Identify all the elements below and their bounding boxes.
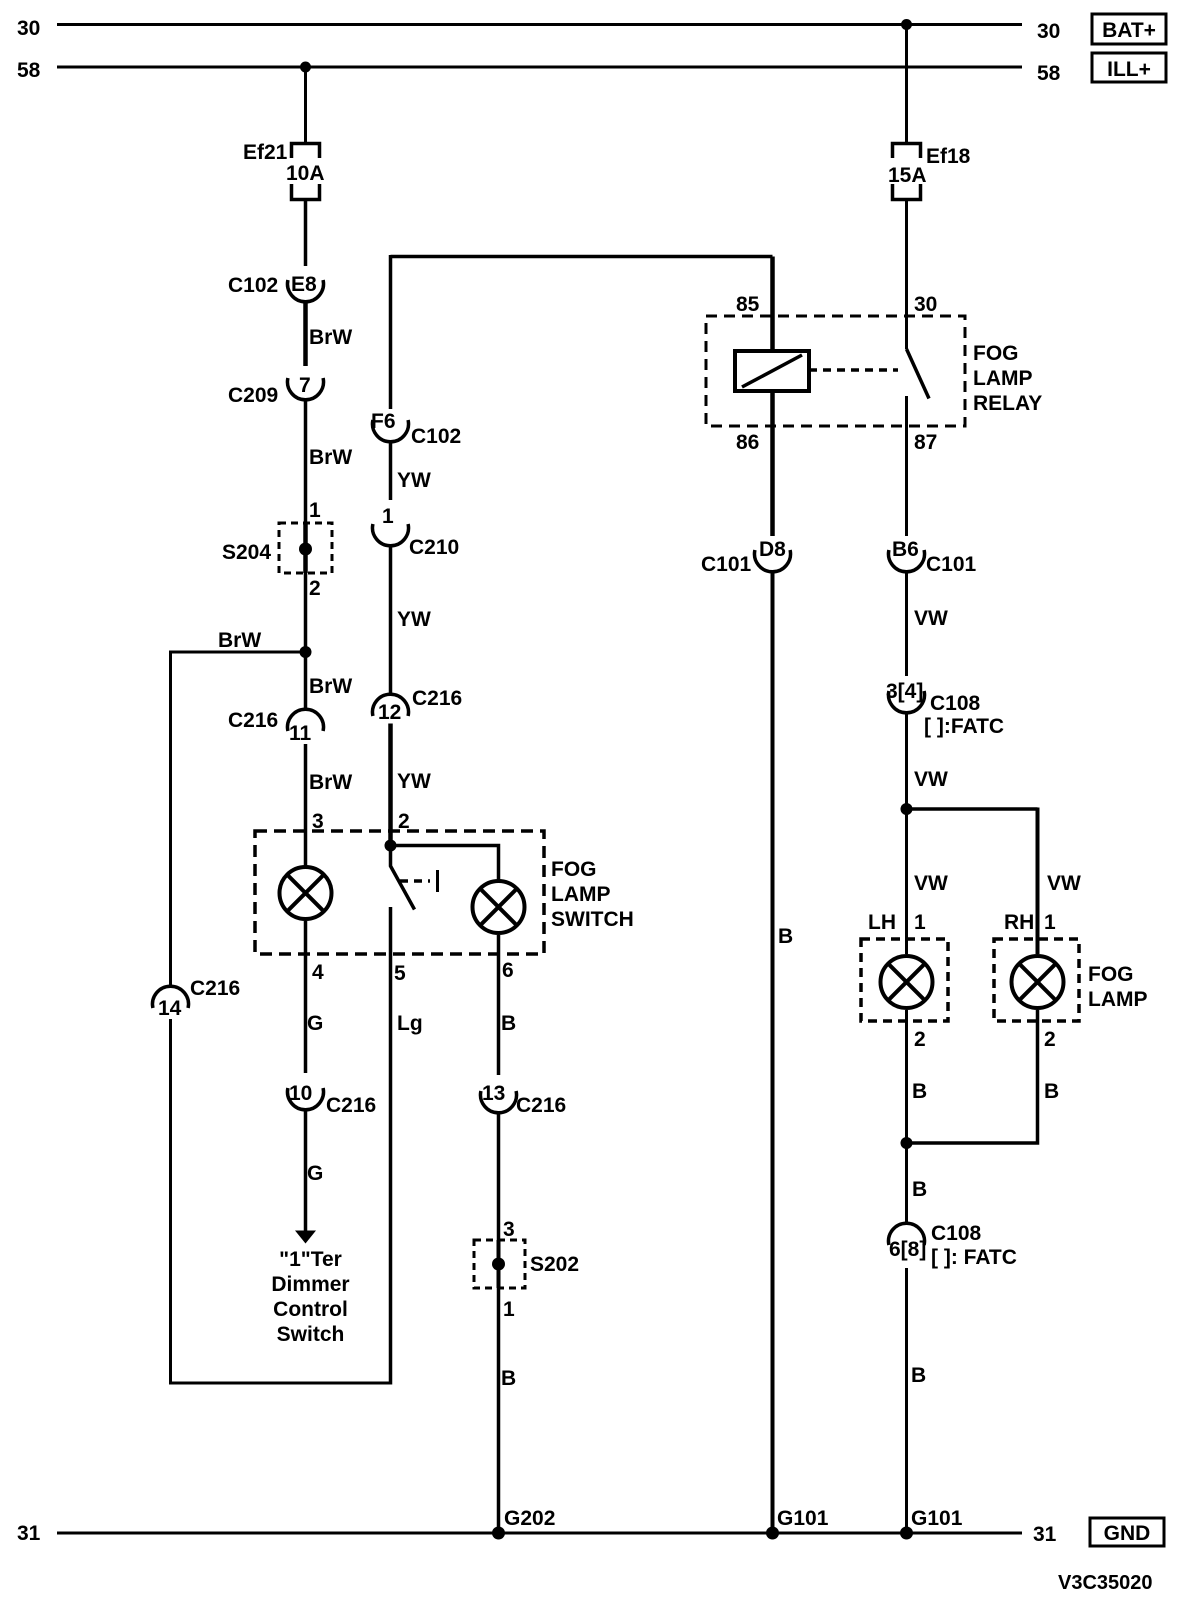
svg-text:30: 30 [17, 17, 40, 40]
C102 pin F6 label [371, 410, 396, 433]
BAT+ terminal [1092, 14, 1166, 44]
wire B S202 to ground G202 [497, 1288, 501, 1533]
svg-text:2: 2 [914, 1028, 926, 1051]
junction VW lamp branch [901, 803, 913, 815]
svg-text:B: B [912, 1178, 927, 1201]
svg-text:BrW: BrW [309, 675, 352, 698]
svg-text:RH: RH [1004, 911, 1034, 934]
wire color B label D8 [778, 925, 793, 948]
ground G101 second [900, 1527, 913, 1540]
relay pin 30 label [914, 293, 937, 316]
wire C216-14 down to loop bottom [169, 1019, 172, 1385]
svg-text:C101: C101 [701, 553, 752, 576]
svg-text:G: G [307, 1162, 323, 1185]
wire color BrW label at branch [218, 629, 261, 652]
C108 FATC note [924, 715, 1004, 738]
wire color B label 2 [501, 1367, 516, 1390]
wire YW C216-12 to switch pin 2 [388, 724, 393, 846]
wire color B label RH [1044, 1080, 1059, 1103]
svg-text:15A: 15A [888, 164, 927, 187]
wire BrW C209 to splice S204 [304, 400, 308, 525]
C209 pin 7 label [299, 374, 311, 397]
svg-text:B: B [911, 1364, 926, 1387]
connector C108 pin 6[8] [889, 1223, 925, 1245]
svg-text:12: 12 [378, 701, 401, 724]
connector C216 pin 12 [372, 694, 408, 716]
svg-text:Control: Control [273, 1298, 348, 1321]
wire down to connector C102 F6 [389, 255, 393, 409]
wire color YW label 3 [397, 770, 431, 793]
C108-68 name label [931, 1222, 982, 1245]
wire BrW E8 to C209 [303, 302, 308, 366]
arrow to dimmer control switch [295, 1231, 316, 1244]
wire G switch pin 4 to C216 pin 10 [304, 921, 308, 1073]
C216 pin 10 label [289, 1082, 312, 1105]
ground G202 label [504, 1507, 555, 1530]
C216-12 name label [412, 687, 462, 710]
dimmer control switch destination label [271, 1248, 349, 1346]
FOG LAMP SWITCH title [551, 858, 634, 931]
C102 pin E8 label [291, 273, 317, 296]
svg-text:1: 1 [914, 911, 926, 934]
C108 name label [930, 692, 981, 715]
RH lamp pin 2 label [1044, 1028, 1056, 1051]
fuse Ef21 value 10A [286, 162, 325, 185]
wire VW B6 to C108 [905, 572, 908, 676]
wire color YW label 1 [397, 469, 431, 492]
wire color YW label 2 [397, 608, 431, 631]
ground G101 first label [777, 1507, 829, 1530]
svg-text:E8: E8 [291, 273, 317, 296]
svg-text:C216: C216 [516, 1094, 566, 1117]
C101-B6 name label [926, 553, 977, 576]
wire color G label 2 [307, 1162, 323, 1185]
svg-text:C216: C216 [326, 1094, 376, 1117]
svg-text:14: 14 [158, 997, 182, 1020]
connector C210 pin 1 [373, 524, 409, 546]
wire VW junction to LH fog lamp [905, 809, 908, 954]
wire color VW label 1 [914, 607, 948, 630]
wire color B label LH [912, 1080, 927, 1103]
net 58 label right [1037, 62, 1061, 85]
svg-text:2: 2 [1044, 1028, 1056, 1051]
FOG LAMP title [1088, 963, 1148, 1011]
switch pin 4 label [312, 961, 324, 984]
switch contact blade [391, 846, 415, 910]
svg-text:10: 10 [289, 1082, 312, 1105]
svg-text:C108: C108 [930, 692, 981, 715]
svg-text:LAMP: LAMP [1088, 988, 1148, 1011]
svg-text:FOG: FOG [551, 858, 597, 881]
switch pin 2 label [398, 810, 410, 833]
net 58 label left [17, 59, 41, 82]
svg-text:D8: D8 [759, 538, 786, 561]
connector C216 pin 13 [480, 1091, 516, 1113]
junction BrW branch node [300, 646, 312, 658]
C101-D8 name label [701, 553, 752, 576]
relay contact blade [907, 349, 930, 399]
svg-text:C216: C216 [228, 709, 278, 732]
wire BrW S204 to junction [304, 573, 308, 652]
RH lamp pin 1 label [1044, 911, 1056, 934]
C102-F6 name label [411, 425, 461, 448]
S202 pin 1 label [503, 1298, 515, 1321]
svg-text:C102: C102 [411, 425, 461, 448]
svg-text:LH: LH [868, 911, 896, 934]
svg-text:6[8]: 6[8] [889, 1238, 926, 1261]
switch illumination lamp [280, 867, 332, 919]
switch pin 3 label [312, 810, 324, 833]
svg-text:Dimmer: Dimmer [271, 1273, 349, 1296]
RH fog lamp [1012, 956, 1064, 1008]
svg-text:G: G [307, 1012, 323, 1035]
wire relay feed to coil pin 85 [770, 257, 775, 352]
wire relay pin 87 to C101 B6 [905, 426, 908, 536]
wire B C108 to ground G101 [905, 1268, 908, 1533]
svg-text:10A: 10A [286, 162, 325, 185]
wire color VW label RH [1047, 872, 1081, 895]
svg-text:C216: C216 [190, 977, 240, 1000]
wire BrW C216-11 to switch pin 3 [304, 744, 308, 866]
splice S204 [279, 523, 332, 573]
svg-text:FOG: FOG [1088, 963, 1134, 986]
C101 pin D8 label [759, 538, 786, 561]
svg-text:2: 2 [309, 577, 321, 600]
fog lamp switch box [255, 831, 544, 954]
svg-text:C108: C108 [931, 1222, 982, 1245]
svg-text:30: 30 [1037, 20, 1060, 43]
fuse Ef18 name label [926, 145, 971, 168]
svg-text:11: 11 [289, 722, 312, 745]
C108-68 FATC note [931, 1246, 1017, 1269]
svg-text:B: B [501, 1367, 516, 1390]
S204 pin 2 label [309, 577, 321, 600]
fuse Ef21 [292, 144, 320, 200]
svg-text:C210: C210 [409, 536, 459, 559]
wire color BrW label 2 [309, 446, 352, 469]
wire net 58 bus [57, 66, 1022, 69]
net 31 label right [1033, 1523, 1057, 1546]
wire VW C108 to lamp branch junction [905, 713, 908, 809]
C216 pin 14 label [158, 997, 182, 1020]
svg-text:58: 58 [17, 59, 41, 82]
svg-text:VW: VW [1047, 872, 1081, 895]
wire switch node to indicator lamp [391, 846, 499, 881]
switch pin 6 label [502, 959, 514, 982]
svg-text:B6: B6 [892, 538, 919, 561]
svg-text:YW: YW [397, 770, 431, 793]
wire color BrW label 3 [309, 675, 352, 698]
wire net 58 to fuse Ef21 [304, 67, 307, 142]
svg-text:31: 31 [17, 1522, 41, 1545]
junction B lamps [901, 1137, 913, 1149]
C216 pin 12 label [378, 701, 401, 724]
wire BrW junction to left branch [171, 651, 306, 654]
wire color VW label LH [914, 872, 948, 895]
wire left branch down to C216 pin 14 [169, 651, 172, 987]
svg-text:V3C35020: V3C35020 [1058, 1572, 1153, 1594]
svg-text:ILL+: ILL+ [1107, 58, 1151, 81]
svg-text:58: 58 [1037, 62, 1061, 85]
svg-text:7: 7 [299, 374, 311, 397]
wire BrW junction to C216 pin 11 [304, 652, 308, 710]
FOG LAMP RELAY title [973, 342, 1042, 415]
S202 name label [530, 1253, 579, 1276]
svg-text:[ ]: FATC: [ ]: FATC [931, 1246, 1017, 1269]
wire VW branch to RH lamp column [907, 807, 1038, 811]
svg-text:YW: YW [397, 608, 431, 631]
svg-text:S204: S204 [222, 541, 271, 564]
svg-text:Lg: Lg [397, 1012, 423, 1035]
svg-text:B: B [501, 1012, 516, 1035]
svg-text:BAT+: BAT+ [1102, 19, 1156, 42]
ground G202 [492, 1527, 505, 1540]
svg-text:YW: YW [397, 469, 431, 492]
LH fog lamp box [861, 939, 948, 1021]
LH lamp pin 2 label [914, 1028, 926, 1051]
fog lamp relay box [706, 316, 965, 426]
svg-text:Switch: Switch [277, 1323, 345, 1346]
wire color BrW label 4 [309, 771, 352, 794]
wire relay pin 86 to C101 D8 [770, 391, 775, 536]
C209 name label [228, 384, 278, 407]
svg-text:BrW: BrW [309, 771, 352, 794]
svg-text:VW: VW [914, 872, 948, 895]
relay coil [735, 351, 809, 391]
svg-text:C216: C216 [412, 687, 462, 710]
switch node pin 2 [385, 840, 397, 852]
svg-text:Ef18: Ef18 [926, 145, 971, 168]
svg-text:G202: G202 [504, 1507, 555, 1530]
C210 pin 1 label [382, 505, 394, 528]
svg-text:87: 87 [914, 431, 937, 454]
relay pin 86 label [736, 431, 759, 454]
wire color B label 4 [911, 1364, 926, 1387]
ILL+ terminal [1092, 53, 1166, 82]
wire color VW label 2 [914, 768, 948, 791]
net 30 label left [17, 17, 40, 40]
svg-text:"1"Ter: "1"Ter [279, 1248, 342, 1271]
wire color B label 1 [501, 1012, 516, 1035]
svg-text:LAMP: LAMP [973, 367, 1033, 390]
svg-text:BrW: BrW [218, 629, 261, 652]
svg-text:[ ]:FATC: [ ]:FATC [924, 715, 1004, 738]
LH lamp pin 1 label [914, 911, 926, 934]
ground G101 first [766, 1527, 779, 1540]
connector C216 pin 14 [153, 986, 189, 1008]
C108 pin 6[8] label [889, 1238, 926, 1261]
connector C101 pin D8 [755, 550, 791, 572]
svg-text:VW: VW [914, 607, 948, 630]
diagram number V3C35020 [1058, 1572, 1153, 1594]
S202 pin 3 label [503, 1218, 515, 1241]
wire net 31 ground bus [57, 1532, 1022, 1535]
svg-text:SWITCH: SWITCH [551, 908, 634, 931]
wire net 30 to fuse Ef18 [905, 25, 908, 143]
svg-text:C101: C101 [926, 553, 977, 576]
connector C216 pin 11 [288, 709, 324, 731]
C216-14 name label [190, 977, 240, 1000]
GND terminal [1090, 1518, 1164, 1546]
connector C102 pin E8 [288, 280, 324, 302]
svg-text:B: B [1044, 1080, 1059, 1103]
wire net 30 bus [57, 23, 1022, 26]
svg-text:1: 1 [503, 1298, 515, 1321]
junction on net 30 [901, 19, 912, 30]
C216-13 name label [516, 1094, 566, 1117]
svg-text:VW: VW [914, 768, 948, 791]
svg-text:1: 1 [1044, 911, 1056, 934]
wire B switch pin 6 to C216 pin 13 [497, 935, 501, 1075]
relay pin 87 label [914, 431, 937, 454]
C101 pin B6 label [892, 538, 919, 561]
svg-text:S202: S202 [530, 1253, 579, 1276]
wire YW F6 to C210 [389, 442, 393, 500]
wire B RH lamp to junction [907, 1010, 1038, 1143]
svg-text:3: 3 [503, 1218, 515, 1241]
C102 name label [228, 274, 278, 297]
C216 pin 11 label [289, 722, 312, 745]
RH fog lamp box [994, 939, 1079, 1021]
svg-text:85: 85 [736, 293, 760, 316]
svg-text:1: 1 [309, 499, 321, 522]
svg-text:BrW: BrW [309, 326, 352, 349]
net 31 label left [17, 1522, 41, 1545]
fuse Ef18 value 15A [888, 164, 927, 187]
svg-text:BrW: BrW [309, 446, 352, 469]
wire color G label 1 [307, 1012, 323, 1035]
LH lamp designator [868, 911, 896, 934]
svg-text:Ef21: Ef21 [243, 141, 288, 164]
switch pin 5 label [394, 962, 406, 985]
wire fuse Ef18 to relay pin 30 [905, 201, 908, 349]
svg-text:31: 31 [1033, 1523, 1057, 1546]
relay pin 85 label [736, 293, 760, 316]
C210 name label [409, 536, 459, 559]
wire B D8 to ground G101 [771, 572, 775, 1533]
fuse Ef21 name label [243, 141, 288, 164]
connector C108 pin 3[4] [889, 691, 925, 713]
svg-text:C209: C209 [228, 384, 278, 407]
C216-11 name label [228, 709, 278, 732]
wire B C216-13 to splice S202 [497, 1113, 501, 1240]
connector C101 pin B6 [889, 550, 925, 572]
svg-text:5: 5 [394, 962, 406, 985]
svg-text:G101: G101 [777, 1507, 829, 1530]
C216-10 name label [326, 1094, 376, 1117]
wire loop bottom horizontal [171, 1382, 391, 1385]
svg-text:FOG: FOG [973, 342, 1019, 365]
svg-text:B: B [778, 925, 793, 948]
wire color BrW label 1 [309, 326, 352, 349]
wire YW C210 to C216 pin 12 [389, 546, 393, 694]
wire VW branch down to RH fog lamp [1036, 808, 1040, 955]
switch indicator lamp [473, 881, 525, 933]
LH fog lamp [881, 956, 933, 1008]
svg-text:B: B [912, 1080, 927, 1103]
svg-text:1: 1 [382, 505, 394, 528]
C108 pin 3[4] label [886, 680, 923, 703]
svg-text:30: 30 [914, 293, 937, 316]
wire color Lg label [397, 1012, 423, 1035]
svg-text:C102: C102 [228, 274, 278, 297]
connector C216 pin 10 [288, 1088, 324, 1110]
svg-text:F6: F6 [371, 410, 396, 433]
svg-text:13: 13 [482, 1082, 505, 1105]
junction on net 58 [300, 62, 311, 73]
svg-text:LAMP: LAMP [551, 883, 611, 906]
wire fuse Ef21 to connector C102 [304, 201, 308, 266]
splice S202 [474, 1240, 525, 1288]
ground G101 second label [911, 1507, 963, 1530]
wire Lg loop up to switch pin 5 [389, 907, 393, 1385]
C216 pin 13 label [482, 1082, 505, 1105]
connector C102 pin F6 [373, 420, 409, 442]
wire G C216-10 to dimmer switch [304, 1110, 308, 1232]
net 30 label right [1037, 20, 1060, 43]
svg-text:86: 86 [736, 431, 759, 454]
S204 pin 1 label [309, 499, 321, 522]
svg-text:GND: GND [1104, 1522, 1151, 1545]
svg-text:G101: G101 [911, 1507, 963, 1530]
RH lamp designator [1004, 911, 1034, 934]
svg-text:4: 4 [312, 961, 324, 984]
svg-text:3[4]: 3[4] [886, 680, 923, 703]
svg-text:RELAY: RELAY [973, 392, 1042, 415]
fuse Ef18 [893, 144, 921, 200]
relay pin 87 stub [905, 396, 908, 426]
wire relay feed horizontal [391, 255, 773, 259]
connector C209 pin 7 [288, 378, 324, 400]
relay coil link [809, 368, 898, 372]
wire B LH lamp to junction [905, 1010, 908, 1143]
S204 name label [222, 541, 271, 564]
switch mechanical link [400, 870, 438, 892]
wire color B label 3 [912, 1178, 927, 1201]
svg-text:6: 6 [502, 959, 514, 982]
wire B junction to C108 6[8] [905, 1143, 908, 1223]
